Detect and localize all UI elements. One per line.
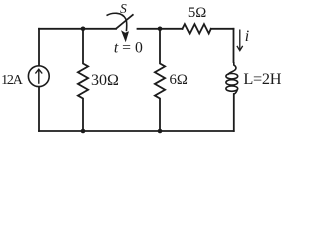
svg-text:t = 0: t = 0 — [114, 40, 143, 57]
svg-text:6Ω: 6Ω — [170, 72, 188, 88]
svg-text:S: S — [120, 1, 127, 16]
svg-text:12A: 12A — [1, 73, 24, 88]
svg-text:i: i — [245, 28, 249, 45]
svg-text:L=2H: L=2H — [243, 69, 281, 88]
svg-text:30Ω: 30Ω — [91, 72, 119, 89]
svg-text:5Ω: 5Ω — [188, 5, 206, 21]
